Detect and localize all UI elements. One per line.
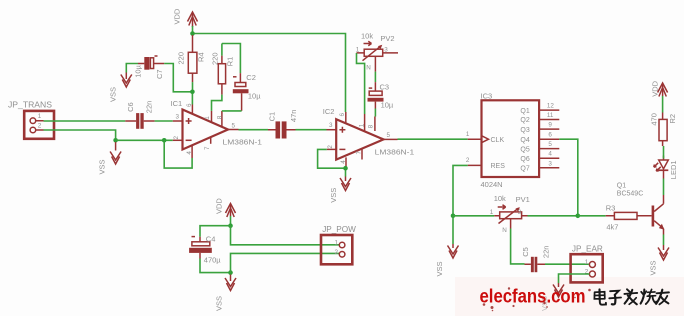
potentiometer PV1 [490,194,530,234]
svg-text:2: 2 [335,249,339,256]
wire rail to PV1 [453,215,494,217]
svg-text:N: N [366,64,371,71]
power VSS below supply [215,275,237,312]
wire junction A to C4 top [200,226,231,237]
wire R4 to node [192,82,194,92]
svg-text:C1: C1 [268,112,277,122]
svg-text:10µ: 10µ [134,64,143,77]
svg-text:IC1: IC1 [171,99,183,108]
svg-text:220: 220 [210,52,219,65]
svg-text:7: 7 [204,146,211,150]
wire JP_EAR pin2 to VSS [559,274,590,283]
connector JP_EAR [571,245,603,283]
resistor R3 [606,203,652,231]
svg-text:7: 7 [356,151,363,155]
wire junction to IC1 pin2 [116,139,173,141]
svg-text:Q7: Q7 [520,166,529,173]
svg-text:C6: C6 [126,102,135,112]
power VDD supply section [215,198,236,217]
connector JP_POW [321,225,356,264]
wire IC1 pin4 gnd loop [164,140,192,168]
svg-text:6: 6 [548,132,552,139]
wire VDD rail to IC2 pin6 [193,34,346,113]
wire PV2 pin1 to IC2 pin1 [357,53,365,114]
wire JP_POW pin2 to junction B [231,253,340,272]
svg-text:1: 1 [359,123,366,127]
svg-text:C4: C4 [206,235,216,244]
wire JP_TRANS pin2 to junction [44,130,116,140]
svg-text:1: 1 [204,116,211,120]
transistor Q1 [617,183,665,235]
svg-text:3: 3 [518,209,522,216]
wire C7 to R4 node [164,64,192,92]
svg-text:VSS: VSS [109,87,118,102]
svg-text:LM386N-1: LM386N-1 [375,148,415,157]
svg-text:Q4: Q4 [520,137,529,144]
svg-text:1: 1 [335,240,339,247]
svg-text:CLK: CLK [491,137,505,144]
wire IC3 RES to PV1 rail [453,165,468,215]
power VSS below JP_EAR [540,283,564,311]
watermark hanzi zi [609,291,621,305]
svg-text:Q2: Q2 [520,117,529,124]
svg-text:4: 4 [340,160,347,164]
svg-text:BC549C: BC549C [617,191,643,198]
capacitor C5 [521,246,551,273]
svg-text:470: 470 [650,113,659,126]
svg-text:R1: R1 [226,57,235,67]
wire C6 to IC1 pin3 [155,120,173,122]
svg-text:3: 3 [329,122,333,129]
svg-text:22n: 22n [145,101,154,114]
wire IC1 out to C1 [239,129,269,131]
svg-text:R3: R3 [606,203,616,212]
wire PV1 pin3 to junction [528,215,578,217]
wire C3 to IC2 pin8 [374,109,376,117]
svg-text:Q1: Q1 [617,183,626,190]
wire rail to R3 [578,215,606,217]
svg-text:2: 2 [173,136,180,140]
svg-text:4024N: 4024N [481,180,503,189]
svg-text:1: 1 [38,113,42,120]
watermark hanzi fa [624,289,637,304]
junction Q4 rail [576,214,581,219]
svg-text:LM386N-1: LM386N-1 [223,137,263,146]
svg-text:C3: C3 [380,83,390,92]
svg-text:22n: 22n [542,246,551,259]
power VSS mid [435,216,459,277]
svg-text:8: 8 [367,124,374,128]
svg-text:220: 220 [177,52,186,65]
junction pin2/VSS [113,138,118,143]
svg-text:4: 4 [186,151,193,155]
power VSS below Q1 [649,245,670,276]
svg-text:1: 1 [356,46,360,53]
power VSS below JP_TRANS wire [98,142,122,175]
svg-text:RES: RES [491,163,506,170]
svg-text:LED1: LED1 [669,160,678,179]
counter IC3 [466,92,559,189]
junction R4/C7/IC1 node [190,90,195,95]
watermark hanzi you [656,290,669,305]
svg-text:Q5: Q5 [520,146,529,153]
junction RES rail [451,214,456,219]
watermark splatter dots [483,287,591,311]
svg-text:JP_EAR: JP_EAR [572,245,603,254]
svg-text:JP_POW: JP_POW [322,225,356,234]
svg-text:8: 8 [216,115,223,119]
svg-text:5: 5 [232,123,236,130]
svg-text:VDD: VDD [651,80,660,96]
power VSS below IC2 [329,177,351,203]
svg-text:4k7: 4k7 [606,222,618,231]
svg-text:PV1: PV1 [516,195,530,204]
svg-text:VSS: VSS [215,296,224,311]
svg-text:5: 5 [387,132,391,139]
svg-text:C2: C2 [246,73,256,82]
svg-text:12: 12 [547,103,555,110]
wire Q1 emitter to VSS [663,235,665,246]
watermark hanzi dian [594,290,606,305]
wire VDD to junction A [230,216,232,226]
power VDD right [651,80,668,96]
capacitor C2 [233,73,261,111]
wire IC2 pin2 gnd loop [318,149,346,176]
wire C4 bottom to junction B [200,259,231,273]
wire PV1 wiper to C5 [511,229,525,264]
svg-text:11: 11 [547,112,554,119]
power VSS near C7 [109,73,132,103]
svg-text:4: 4 [548,151,552,158]
capacitor C3 [368,82,394,110]
capacitor C1 [268,110,299,139]
wire JP_TRANS pin1 to C6 [44,120,126,122]
capacitor C6 [125,101,154,129]
svg-text:VSS: VSS [98,159,107,174]
svg-text:2: 2 [38,123,42,130]
svg-text:1: 1 [585,259,589,266]
svg-text:10k: 10k [494,194,506,203]
svg-text:3: 3 [384,46,388,53]
junction VDD rail [190,31,195,36]
svg-text:C7: C7 [155,69,164,79]
wire IC2 out to IC3 CLK [398,138,468,140]
junction B supply bottom [228,270,233,275]
wire C2 bottom to IC1 pin8 [222,110,242,112]
wire VDD to R2 [662,96,664,113]
wire R1 top to C2 top [222,44,241,74]
op-amp IC2 [323,107,414,168]
svg-text:1: 1 [490,209,494,216]
junction IC2 pin4/VSS [343,166,348,171]
svg-text:IC2: IC2 [323,107,335,116]
watermark tint [455,277,684,316]
svg-text:Q1: Q1 [520,108,529,115]
wire PV2 wiper to C3 [374,72,376,83]
svg-text:C5: C5 [521,247,530,257]
capacitor C4 [189,235,221,265]
power VDD top-left [173,8,198,27]
svg-text:47n: 47n [289,110,298,123]
watermark hanzi shao [641,289,657,304]
wire C5 to JP_EAR pin1 [545,263,589,265]
svg-text:2: 2 [466,157,470,164]
resistor R2 [650,113,678,147]
potentiometer PV2 [356,32,398,72]
svg-text:10k: 10k [361,32,373,41]
LED LED1 [654,156,678,180]
svg-text:VDD: VDD [173,8,182,24]
svg-text:PV2: PV2 [380,34,394,43]
svg-text:Q6: Q6 [520,156,529,163]
junction IC1 pin2/pin4 loop [162,138,167,143]
op-amp IC1 [171,99,263,158]
svg-text:R4: R4 [197,52,206,62]
svg-text:470µ: 470µ [204,255,222,264]
svg-text:Q3: Q3 [520,127,529,134]
svg-text:VSS: VSS [435,261,444,276]
svg-text:2: 2 [327,145,334,149]
wire R1 bottom to IC1 pin1 [212,95,222,111]
svg-text:10µ: 10µ [248,92,261,101]
wire C7 to VSS [126,64,138,73]
svg-text:9: 9 [548,122,552,129]
wire C1 to IC2 pin3 [296,129,327,131]
resistor R1 [210,52,234,94]
svg-text:N: N [502,227,507,234]
resistor R4 [177,35,206,82]
svg-text:R2: R2 [668,114,677,124]
capacitor C7 [134,56,165,79]
svg-text:3: 3 [548,160,552,167]
wire IC3 Q4 to LED driver [559,139,578,216]
wire VDD symbol to rail [192,26,194,34]
svg-text:5: 5 [548,141,552,148]
svg-text:VSS: VSS [649,260,658,275]
svg-text:VDD: VDD [215,198,224,214]
connector JP_TRANS [8,101,54,139]
svg-text:VSS: VSS [329,188,338,203]
wire R2 to LED [663,146,665,159]
wire junction A to JP_POW pin1 [231,226,340,245]
svg-text:10µ: 10µ [381,101,394,110]
svg-text:1: 1 [466,131,470,138]
wire node to IC1 pin6 [191,92,193,105]
svg-text:JP_TRANS: JP_TRANS [8,101,53,110]
svg-text:3: 3 [176,113,180,120]
junction A supply top [228,223,233,228]
svg-text:elecfans.com: elecfans.com [480,286,586,308]
wire Q1 collector to LED [663,179,665,196]
